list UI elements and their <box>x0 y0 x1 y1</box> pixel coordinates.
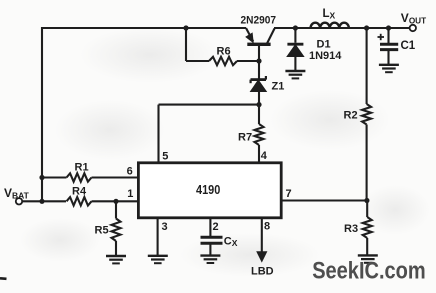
svg-text:3: 3 <box>162 221 168 233</box>
svg-text:SeekIC.com: SeekIC.com <box>312 259 426 285</box>
svg-text:R4: R4 <box>72 186 87 198</box>
svg-text:4: 4 <box>261 150 268 162</box>
svg-text:5: 5 <box>162 151 168 163</box>
svg-text:4190: 4190 <box>196 183 220 197</box>
svg-text:R1: R1 <box>75 162 89 174</box>
svg-text:2N2907: 2N2907 <box>241 15 277 27</box>
svg-text:R7: R7 <box>238 132 252 144</box>
svg-text:R3: R3 <box>344 223 358 235</box>
svg-text:CX: CX <box>224 236 238 249</box>
svg-text:R5: R5 <box>95 225 109 237</box>
svg-text:C1: C1 <box>401 40 416 52</box>
svg-text:1: 1 <box>127 188 133 200</box>
svg-text:1N914: 1N914 <box>309 50 342 62</box>
svg-text:LX: LX <box>323 8 336 21</box>
svg-text:D1: D1 <box>317 39 331 51</box>
svg-text:LBD: LBD <box>251 266 274 278</box>
svg-text:2: 2 <box>213 221 219 233</box>
svg-text:6: 6 <box>127 165 133 177</box>
svg-text:8: 8 <box>264 221 270 233</box>
svg-text:R6: R6 <box>217 46 231 58</box>
svg-text:Z1: Z1 <box>272 81 285 93</box>
svg-text:7: 7 <box>286 188 292 200</box>
svg-text:R2: R2 <box>344 110 358 122</box>
